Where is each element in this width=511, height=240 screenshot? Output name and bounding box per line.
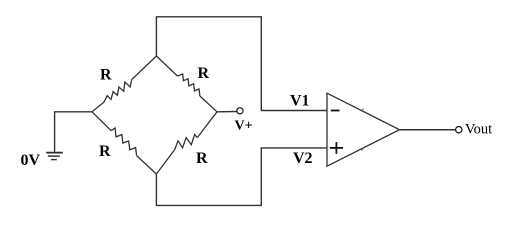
svg-text:V2: V2 [293,150,313,167]
terminal V+ [237,108,243,114]
op-amp U1 [327,93,400,166]
resistor R2 (top-right arm) [156,56,217,112]
wire V+ stub [217,111,237,113]
svg-text:0V: 0V [21,152,41,169]
svg-text:R: R [198,65,210,82]
resistor R4 (bottom-right arm) [156,112,217,174]
resistor R3 (bottom-left arm) [92,112,156,174]
svg-text:Vout: Vout [465,122,492,138]
terminal Vout [456,127,462,133]
wire output [400,129,456,131]
op-amp plus input marker [330,142,343,154]
ground [46,153,63,160]
wire top: bridge top node to op-amp inverting input [156,17,326,111]
svg-text:R: R [196,150,208,167]
svg-text:V+: V+ [235,118,253,133]
svg-text:V1: V1 [290,93,310,110]
tick on op-amp top edge [361,109,363,112]
wire bottom: bridge bottom node to op-amp non-inverting input [156,148,326,206]
svg-text:R: R [99,143,111,160]
resistor R1 (top-left arm) [92,56,156,112]
svg-text:R: R [100,67,112,84]
tick on op-amp bottom edge [361,148,363,151]
op-amp minus input marker [331,110,340,112]
wire left: bridge left node to ground [55,112,92,152]
